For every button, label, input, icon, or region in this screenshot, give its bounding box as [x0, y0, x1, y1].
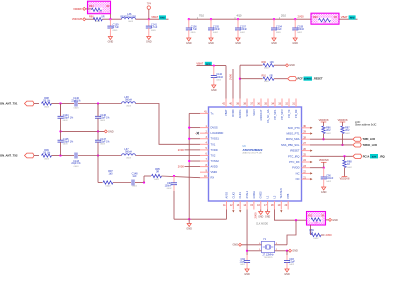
svg-text:0603: 0603: [100, 144, 106, 146]
svg-text:0R: 0R: [106, 5, 109, 8]
svg-text:0805: 0805: [151, 30, 157, 32]
svg-text:22pF 1%: 22pF 1%: [71, 100, 80, 102]
svg-text:C145: C145: [63, 138, 69, 141]
svg-text:GND: GND: [258, 216, 263, 218]
svg-text:0603: 0603: [74, 166, 80, 168]
svg-text:GND: GND: [321, 191, 327, 194]
svg-text:GND: GND: [146, 40, 152, 43]
svg-text:R96: R96: [89, 15, 94, 18]
svg-text:0603: 0603: [126, 106, 132, 108]
svg-text:GND: GND: [332, 219, 338, 222]
svg-text:4.7uF: 4.7uF: [151, 26, 158, 29]
svg-text:12pF: 12pF: [239, 261, 245, 264]
svg-text:100nF: 100nF: [165, 185, 172, 188]
svg-text:NM: NM: [323, 23, 327, 25]
svg-text:0603: 0603: [74, 107, 80, 109]
svg-text:GND: GND: [232, 244, 238, 247]
svg-text:10uF: 10uF: [276, 28, 282, 31]
svg-text:GND: GND: [211, 89, 217, 92]
svg-text:100nF: 100nF: [326, 177, 333, 180]
svg-text:27.12MHz: 27.12MHz: [262, 254, 274, 257]
svg-text:0402: 0402: [326, 133, 332, 135]
svg-text:NM: NM: [99, 12, 103, 14]
svg-text:GND: GND: [108, 40, 114, 43]
svg-text:0402: 0402: [154, 179, 160, 181]
svg-text:GND: GND: [235, 42, 241, 45]
svg-text:GND: GND: [284, 273, 290, 276]
svg-text:C140: C140: [73, 97, 79, 100]
svg-text:0402: 0402: [297, 32, 303, 34]
svg-text:0402: 0402: [326, 181, 332, 183]
svg-text:VDD3V8: VDD3V8: [340, 177, 350, 180]
svg-text:7/10: 7/10: [199, 14, 204, 17]
svg-text:100nF: 100nF: [297, 28, 304, 31]
svg-text:100pF 1%: 100pF 1%: [63, 141, 73, 143]
svg-text:4.7uF: 4.7uF: [191, 28, 198, 31]
svg-text:RFD: RFD: [160, 18, 165, 20]
svg-text:0402: 0402: [167, 188, 173, 190]
svg-text:0402: 0402: [132, 185, 138, 187]
svg-text:0402: 0402: [216, 79, 222, 81]
svg-text:0805: 0805: [191, 32, 197, 34]
svg-text:GND: GND: [186, 227, 192, 230]
svg-text:RFD: RFD: [350, 18, 355, 20]
svg-text:L37: L37: [124, 148, 129, 151]
svg-text:1R 1%: 1R 1%: [43, 151, 51, 154]
svg-text:0603: 0603: [128, 21, 134, 23]
svg-text:560nH: 560nH: [125, 151, 132, 153]
svg-text:0R: 0R: [156, 171, 159, 174]
svg-text:C147: C147: [100, 138, 106, 141]
svg-text:0402: 0402: [345, 133, 351, 135]
svg-text:Slave address 0x3C: Slave address 0x3C: [355, 124, 377, 127]
svg-text:2/10: 2/10: [281, 14, 286, 17]
svg-text:GND: GND: [292, 250, 298, 253]
svg-text:1nF: 1nF: [132, 175, 137, 178]
svg-text:0402: 0402: [314, 238, 320, 240]
svg-text:100nF: 100nF: [216, 76, 223, 79]
svg-text:VDD3V8: VDD3V8: [319, 119, 329, 122]
svg-text:GND: GND: [265, 216, 270, 218]
svg-text:0603: 0603: [63, 144, 69, 146]
svg-text:GND: GND: [108, 130, 114, 133]
svg-text:0R: 0R: [101, 15, 104, 18]
svg-text:1k0: 1k0: [109, 172, 114, 175]
svg-text:0402: 0402: [213, 32, 219, 34]
svg-text:0805: 0805: [276, 32, 282, 34]
svg-text:10K: 10K: [270, 61, 275, 64]
svg-text:4/10: 4/10: [237, 14, 242, 17]
svg-text:0603: 0603: [100, 120, 106, 122]
svg-text:0402: 0402: [347, 167, 353, 169]
svg-text:2K2: 2K2: [345, 129, 350, 132]
svg-text:GND: GND: [186, 42, 192, 45]
svg-text:0402: 0402: [240, 32, 246, 34]
svg-text:GND: GND: [289, 64, 295, 67]
svg-text:L36: L36: [127, 13, 132, 16]
svg-text:0603: 0603: [44, 107, 50, 109]
svg-text:x: x: [195, 133, 196, 135]
svg-text:0805: 0805: [113, 30, 119, 32]
svg-text:C143: C143: [73, 160, 79, 163]
svg-text:GND: GND: [208, 42, 214, 45]
svg-text:0603: 0603: [44, 159, 50, 161]
svg-text:0603: 0603: [95, 21, 101, 23]
svg-text:0402: 0402: [106, 185, 112, 187]
svg-text:R93: R93: [313, 16, 318, 19]
svg-text:100pF 1%: 100pF 1%: [63, 117, 73, 119]
svg-text:GND: GND: [292, 42, 298, 45]
svg-text:ATA5702M322: ATA5702M322: [243, 148, 263, 152]
svg-text:GND: GND: [244, 273, 250, 276]
svg-text:100nF: 100nF: [213, 28, 220, 31]
svg-text:22pF 1%: 22pF 1%: [100, 141, 109, 143]
svg-text:VDD3V8: VDD3V8: [338, 119, 348, 122]
svg-text:12pF: 12pF: [289, 261, 295, 264]
svg-text:C146: C146: [100, 114, 106, 117]
svg-text:22pF 1%: 22pF 1%: [100, 117, 109, 119]
svg-text:2K2: 2K2: [326, 129, 331, 132]
svg-text:0402: 0402: [289, 264, 295, 266]
svg-text:NM: NM: [314, 222, 318, 224]
svg-text:0402: 0402: [264, 67, 270, 69]
svg-text:560nH: 560nH: [125, 99, 132, 101]
svg-text:0402: 0402: [264, 81, 270, 83]
svg-text:TSX3225: TSX3225: [264, 257, 274, 259]
svg-text:C144: C144: [63, 114, 69, 117]
svg-text:0R: 0R: [334, 16, 337, 19]
svg-text:TP4: TP4: [147, 4, 152, 6]
svg-text:CLK MODE: CLK MODE: [256, 223, 268, 225]
svg-text:22pF 1%: 22pF 1%: [71, 163, 80, 165]
svg-text:1K: 1K: [347, 163, 350, 166]
svg-text:0603: 0603: [63, 120, 69, 122]
svg-text:1R 1%: 1R 1%: [43, 99, 51, 102]
svg-text:0603: 0603: [126, 158, 132, 160]
svg-text:100nF: 100nF: [240, 28, 247, 31]
svg-text:VDD3V8: VDD3V8: [319, 159, 329, 162]
svg-text:L38: L38: [124, 96, 129, 99]
svg-text:GND: GND: [271, 42, 277, 45]
svg-text:0402: 0402: [240, 264, 246, 266]
svg-text:4.7uF: 4.7uF: [113, 26, 120, 29]
